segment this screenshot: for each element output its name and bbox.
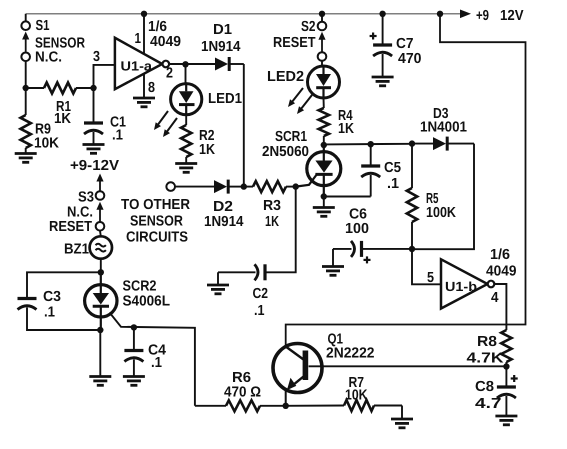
- svg-text:SENSOR: SENSOR: [130, 214, 183, 230]
- svg-text:C8: C8: [475, 379, 494, 395]
- svg-text:C7: C7: [396, 36, 414, 52]
- capacitor C8: [497, 367, 518, 417]
- wire D1 cathode down: [243, 64, 245, 187]
- svg-text:1/6: 1/6: [148, 19, 167, 35]
- svg-text:470 Ω: 470 Ω: [224, 385, 261, 401]
- svg-text:LED1: LED1: [208, 91, 242, 107]
- svg-text:4: 4: [491, 290, 499, 306]
- ground R2: [175, 162, 197, 165]
- node SCR2 cathode junction: [97, 327, 103, 333]
- svg-text:N.C.: N.C.: [35, 50, 62, 66]
- led LED2: [308, 66, 340, 98]
- svg-text:+9-12V: +9-12V: [70, 158, 119, 174]
- node B junction R1/C1/pin3: [90, 85, 96, 91]
- wire BZ1 to SCR2: [100, 259, 102, 273]
- svg-text:D2: D2: [213, 199, 233, 215]
- node R3/C2/gate junction: [293, 183, 299, 189]
- node emitter junction: [283, 403, 289, 409]
- svg-text:S4006L: S4006L: [123, 294, 171, 310]
- svg-text:100: 100: [345, 221, 369, 237]
- node D junction R4/SCR1/C5wire: [321, 142, 327, 148]
- node D1/D2/R3 junction: [241, 183, 247, 189]
- svg-text:C2: C2: [253, 286, 269, 302]
- node C junction output/LED1/D1: [182, 61, 188, 67]
- wire pin4 output: [494, 284, 506, 330]
- svg-text:+9: +9: [476, 8, 489, 24]
- diode D3: [412, 137, 474, 151]
- svg-text:U1-b: U1-b: [445, 279, 477, 294]
- svg-text:D1: D1: [213, 22, 232, 38]
- capacitor C7: [370, 14, 393, 77]
- node rail junction U1-a pin1: [141, 11, 147, 17]
- svg-text:5: 5: [427, 270, 434, 286]
- wire pin3 input: [94, 65, 115, 88]
- svg-text:4.7: 4.7: [475, 396, 502, 412]
- svg-text:1: 1: [135, 31, 142, 47]
- diode D1: [215, 57, 244, 71]
- resistor R6: [195, 400, 286, 411]
- svg-text:BZ1: BZ1: [64, 242, 89, 258]
- node R5/C6/pin5 junction: [409, 246, 415, 252]
- svg-text:.1: .1: [44, 305, 55, 321]
- svg-text:.1: .1: [254, 303, 265, 319]
- resistor R1: [26, 83, 94, 94]
- capacitor C6: [333, 241, 412, 267]
- svg-text:C3: C3: [43, 289, 61, 305]
- ground C2: [207, 284, 229, 287]
- switch S2: [318, 22, 327, 61]
- ground SCR2: [89, 375, 111, 378]
- svg-text:10K: 10K: [34, 136, 59, 152]
- svg-text:4.7K: 4.7K: [467, 351, 505, 367]
- svg-text:2N2222: 2N2222: [326, 346, 375, 362]
- svg-text:1N914: 1N914: [204, 214, 244, 230]
- svg-text:C5: C5: [384, 160, 401, 176]
- wire power branch to Q1 collector: [286, 14, 526, 347]
- scr SCR1: [296, 145, 341, 197]
- node R8/C8/base junction: [503, 363, 509, 369]
- svg-text:100K: 100K: [426, 205, 456, 221]
- transistor Q1: [273, 344, 322, 406]
- svg-text:1K: 1K: [199, 142, 215, 158]
- LED2 light arrows: [288, 88, 312, 114]
- svg-text:SCR1: SCR1: [275, 129, 307, 145]
- svg-text:12V: 12V: [500, 8, 524, 24]
- wire pin5 input: [412, 249, 441, 284]
- svg-text:.1: .1: [112, 128, 123, 144]
- wire S2 to LED2: [321, 61, 323, 67]
- switch S1: [21, 21, 30, 61]
- svg-text:S3: S3: [78, 190, 94, 206]
- node C5 top junction: [368, 141, 374, 147]
- capacitor C1: [84, 88, 103, 145]
- node rail junction S2: [319, 11, 325, 17]
- svg-text:U1-a: U1-a: [121, 59, 153, 74]
- svg-text:.1: .1: [151, 355, 162, 371]
- node D2 terminal: [166, 182, 175, 191]
- svg-text:RESET: RESET: [273, 35, 316, 51]
- resistor R3: [244, 181, 296, 192]
- node D3/R5 junction: [409, 140, 415, 146]
- wire pin1 from rail: [143, 14, 145, 54]
- svg-text:R3: R3: [263, 198, 281, 214]
- scr SCR2: [85, 272, 117, 330]
- svg-text:SCR2: SCR2: [123, 279, 157, 295]
- svg-text:4049: 4049: [150, 34, 181, 50]
- svg-text:1N4001: 1N4001: [420, 120, 467, 136]
- svg-text:S2: S2: [301, 19, 316, 35]
- resistor R4: [319, 98, 329, 145]
- op-amp U1-b: [441, 259, 494, 308]
- ground SCR1: [313, 206, 335, 209]
- ground C7: [372, 76, 394, 79]
- wire pin8 to ground: [143, 74, 145, 99]
- svg-text:TO OTHER: TO OTHER: [121, 197, 190, 213]
- node A junction S1/R1/R9: [23, 85, 29, 91]
- svg-text:S1: S1: [36, 18, 50, 34]
- svg-text:10K: 10K: [345, 388, 368, 404]
- resistor R9: [21, 88, 31, 154]
- svg-text:1K: 1K: [338, 121, 354, 137]
- node rail junction right branch: [437, 11, 443, 17]
- svg-text:.1: .1: [387, 176, 399, 192]
- resistor R5: [407, 144, 417, 250]
- wire SCR1 cathode to ground: [323, 197, 325, 208]
- label +9-12V S3 arrow: [96, 174, 103, 182]
- switch S3: [96, 191, 105, 230]
- svg-text:1/6: 1/6: [490, 247, 510, 263]
- resistor R8: [501, 330, 511, 367]
- svg-text:3: 3: [93, 49, 100, 65]
- wire SCR1 anode row: [324, 143, 412, 146]
- ground C8: [495, 415, 517, 418]
- op-amp U1-a: [115, 38, 169, 89]
- ground U1-a pin8: [133, 97, 155, 100]
- wire S2 stem: [321, 14, 323, 22]
- svg-text:RESET: RESET: [49, 219, 92, 235]
- node rail junction C7: [379, 11, 385, 17]
- ground C1: [83, 143, 105, 146]
- capacitor C2: [218, 187, 296, 285]
- svg-text:1K: 1K: [54, 111, 71, 127]
- node BZ1/C3/SCR2 junction: [98, 269, 104, 275]
- ground C6: [322, 265, 344, 268]
- wire SCR2 cathode ground: [99, 330, 101, 377]
- led LED1: [171, 84, 202, 115]
- svg-text:470: 470: [398, 51, 422, 67]
- capacitor C4: [124, 327, 143, 376]
- svg-text:4049: 4049: [486, 264, 517, 280]
- svg-text:2N5060: 2N5060: [262, 144, 309, 160]
- wire D3 cathode down: [412, 144, 474, 250]
- svg-text:R8: R8: [477, 334, 497, 350]
- buzzer BZ1: [90, 231, 112, 259]
- resistor R7: [286, 400, 402, 419]
- svg-text:1K: 1K: [265, 214, 279, 230]
- diode D2: [175, 180, 244, 194]
- capacitor C3: [18, 272, 101, 330]
- wire Q1 base: [309, 365, 507, 367]
- svg-text:1N914: 1N914: [201, 39, 241, 55]
- resistor R2: [181, 115, 191, 164]
- wire SCR2 gate: [110, 313, 195, 406]
- node gate/C4 junction: [131, 324, 137, 330]
- svg-text:8: 8: [148, 80, 155, 96]
- LED1 light arrows: [154, 111, 177, 137]
- wire U1-a output: [169, 63, 215, 65]
- svg-text:LED2: LED2: [267, 69, 304, 85]
- wire S1 stem from rail: [25, 14, 27, 22]
- wire LED1 anode: [185, 64, 187, 84]
- wire S1 to node A: [25, 61, 27, 88]
- ground C4: [123, 375, 145, 378]
- ground R9: [15, 152, 37, 155]
- capacitor C5: [324, 144, 380, 196]
- wire +9-12V top rail: [26, 10, 471, 19]
- svg-text:2: 2: [166, 66, 173, 82]
- node SCR1 cathode junction: [321, 193, 327, 199]
- ground R7: [391, 418, 413, 421]
- svg-text:CIRCUITS: CIRCUITS: [126, 229, 188, 245]
